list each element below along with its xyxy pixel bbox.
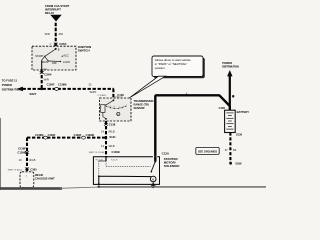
svg-text:START: START — [35, 54, 44, 58]
callout note box — [152, 56, 203, 77]
svg-text:(PART OF A4LD): (PART OF A4LD) — [8, 168, 23, 171]
svg-text:W/R: W/R — [44, 77, 49, 81]
svg-text:R/LB: R/LB — [29, 158, 35, 162]
svg-text:SOLENOID: SOLENOID — [164, 164, 181, 168]
svg-text:C139F: C139F — [18, 147, 26, 151]
TR wiper block — [101, 105, 105, 113]
svg-text:STA: STA — [43, 68, 47, 71]
svg-text:RUN: RUN — [42, 60, 48, 64]
svg-text:R/LB: R/LB — [109, 144, 115, 148]
battery negative wire — [229, 133, 231, 163]
wire down to TR sensor — [112, 89, 114, 99]
battery cable stub and contact — [154, 157, 156, 161]
svg-text:TO FUSE 11: TO FUSE 11 — [2, 78, 18, 82]
TR contact arc — [107, 106, 126, 108]
svg-text:14: 14 — [101, 130, 104, 134]
svg-text:LOCK: LOCK — [63, 60, 70, 64]
svg-text:C139M: C139M — [18, 150, 26, 154]
svg-text:PULL-IN: PULL-IN — [111, 159, 118, 161]
svg-text:32: 32 — [89, 83, 92, 87]
battery positive cable — [155, 95, 230, 157]
ignition switch dashed box — [32, 46, 76, 70]
hold-in winding — [98, 161, 100, 176]
svg-text:POWER: POWER — [2, 83, 12, 87]
svg-text:S227: S227 — [29, 92, 36, 96]
scan page edge bottom — [0, 187, 62, 190]
svg-text:RELAY: RELAY — [45, 11, 54, 15]
starter motor/solenoid box — [93, 157, 159, 185]
svg-text:DISTRIBUTION: DISTRIBUTION — [222, 65, 239, 68]
starter motor M — [150, 176, 156, 182]
svg-text:C120: C120 — [162, 151, 170, 155]
connector C264 (bottom) — [40, 71, 52, 76]
svg-text:C138: C138 — [109, 123, 116, 127]
svg-text:C264: C264 — [59, 42, 67, 46]
splice S206 — [229, 162, 232, 165]
svg-text:OFF: OFF — [52, 61, 58, 65]
junction C363 — [8, 168, 37, 172]
junction square — [232, 95, 234, 97]
svg-text:S131: S131 — [109, 135, 116, 139]
svg-text:C138: C138 — [219, 106, 226, 110]
motor supply rail — [99, 175, 151, 177]
svg-text:262: 262 — [59, 32, 64, 36]
svg-text:C139M: C139M — [35, 133, 43, 137]
svg-text:C264: C264 — [44, 72, 52, 76]
TR wiper — [105, 100, 114, 105]
svg-text:CHASSIS UNIT: CHASSIS UNIT — [35, 176, 55, 180]
svg-text:2: 2 — [123, 106, 124, 108]
arrow to power distribution — [229, 76, 231, 106]
svg-text:C139M: C139M — [58, 83, 66, 87]
contact START to STA terminal — [42, 56, 45, 60]
wire bus to TR sensor (horizontal) — [23, 88, 114, 90]
svg-text:position.: position. — [155, 66, 166, 70]
svg-text:10: 10 — [19, 158, 22, 162]
wire STA down to splice S227 — [41, 70, 43, 89]
svg-text:14: 14 — [101, 144, 104, 148]
svg-text:ACC: ACC — [63, 53, 69, 57]
transmission range sensor dashed box — [100, 98, 132, 121]
wire branch to rear chassis (horizontal) — [27, 137, 106, 139]
terminal STA — [41, 60, 43, 70]
connector C139F/C139M (left drop) — [18, 147, 29, 155]
inline connector C139F/C139M — [47, 83, 67, 91]
svg-text:37: 37 — [225, 148, 228, 152]
callout tail — [130, 76, 166, 98]
scan page edge left — [0, 118, 2, 190]
wire TR sensor to starter solenoid — [105, 121, 107, 157]
svg-text:C139M: C139M — [86, 133, 94, 137]
splice S227 — [40, 88, 43, 91]
off-page connector triangle A — [50, 15, 61, 22]
rear chassis unit dashed box — [20, 172, 34, 188]
inline connector C139F/C139M — [74, 133, 94, 139]
svg-text:BATTERY: BATTERY — [237, 110, 250, 114]
svg-text:S206: S206 — [235, 162, 242, 166]
svg-text:C363: C363 — [30, 168, 37, 172]
svg-text:SWITCH: SWITCH — [78, 48, 90, 52]
switch position ticks — [44, 56, 45, 57]
rail to case ground — [98, 176, 100, 184]
svg-text:SENSOR: SENSOR — [134, 106, 145, 110]
svg-text:M: M — [152, 178, 154, 181]
contact linkage — [45, 56, 49, 61]
svg-text:R/LB: R/LB — [109, 130, 115, 134]
svg-text:12 (PARK): 12 (PARK) — [97, 94, 106, 97]
note box SEE GROUNDS — [196, 147, 219, 154]
TR position ticks P R N D 2 1 — [106, 106, 107, 107]
solenoid S terminal entry — [105, 157, 107, 161]
svg-text:B: B — [58, 47, 60, 51]
svg-text:BK: BK — [233, 148, 237, 152]
splice S131 — [105, 136, 107, 138]
svg-text:SEE GROUNDS: SEE GROUNDS — [198, 149, 217, 153]
inline connector C139M/C139F — [35, 133, 56, 139]
svg-text:C139F: C139F — [74, 133, 82, 137]
arrow to fuse 11 — [17, 87, 24, 92]
TR bottom terminal — [105, 118, 107, 120]
pull-in winding — [105, 161, 107, 166]
svg-text:1: 1 — [126, 104, 127, 106]
connector C264 (top) — [49, 42, 66, 46]
svg-text:4: 4 — [26, 176, 27, 178]
wiper arm from B to START — [45, 49, 56, 57]
svg-text:S130: S130 — [236, 133, 243, 137]
connector C138 — [104, 123, 116, 127]
note TO FUSE 11 POWER DISTRIBUTION — [2, 78, 21, 91]
TR lower contact path — [103, 112, 106, 119]
solenoid contact arm — [151, 161, 155, 171]
svg-text:32: 32 — [49, 43, 51, 45]
wire 262 W/R from relay to ignition switch — [55, 23, 57, 48]
TR position D indicator — [117, 112, 120, 115]
svg-text:(PART OF C130B): (PART OF C130B) — [89, 151, 105, 154]
svg-text:W/PK: W/PK — [90, 90, 97, 94]
svg-text:RANGE (TR): RANGE (TR) — [134, 102, 149, 106]
svg-text:W/R: W/R — [45, 32, 50, 36]
off-page arrow note: FROM C3A START INTERRUPT RELAY — [45, 4, 70, 15]
battery — [225, 110, 236, 132]
wire down-leg to rear chassis unit — [26, 138, 28, 176]
callout note shadow — [154, 58, 205, 79]
svg-text:C139F: C139F — [48, 133, 56, 137]
svg-text:HOLD-IN: HOLD-IN — [96, 159, 104, 161]
svg-text:TRANSMISSION: TRANSMISSION — [134, 99, 154, 103]
svg-text:C139F: C139F — [47, 83, 55, 87]
svg-text:C130B: C130B — [112, 150, 120, 154]
ground G below starter — [151, 184, 156, 187]
TR top terminal — [113, 99, 115, 101]
terminal B — [55, 48, 57, 50]
